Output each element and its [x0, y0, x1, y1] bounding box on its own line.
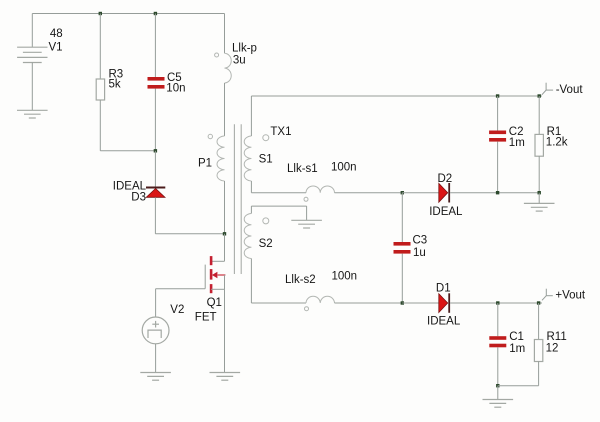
node junction D1 anode	[401, 301, 404, 304]
inductor Llk-s1	[306, 186, 335, 193]
wire V2 bottom lead	[155, 344, 157, 373]
wire D1 cathode to +Vout	[450, 302, 542, 304]
node junction C2 bottom	[496, 191, 499, 194]
svg-text:3u: 3u	[233, 54, 246, 66]
wire Llk-s2 to D1 node	[335, 302, 403, 304]
svg-text:48: 48	[50, 28, 63, 40]
wire D3 top lead	[154, 151, 156, 187]
wire D2 anode lead	[402, 192, 439, 194]
wire tap ground stem	[306, 206, 308, 220]
wire S1 to Llk-s1	[251, 192, 306, 194]
S2 dot	[263, 218, 269, 224]
wire R3 bottom lead	[99, 100, 101, 151]
node junction R11 top	[537, 301, 540, 304]
node junction at R3 top	[99, 12, 102, 15]
wire S2 bottom lead	[250, 259, 252, 304]
wire S1 bottom lead	[250, 181, 252, 193]
wire C3 bottom lead	[401, 254, 403, 303]
diode D2	[439, 183, 448, 202]
S1 dot	[263, 135, 269, 141]
wire V1 bottom lead	[31, 63, 33, 111]
node junction R1 top	[538, 94, 541, 97]
svg-text:12: 12	[546, 342, 559, 354]
svg-text:+Vout: +Vout	[555, 290, 586, 302]
svg-text:Q1: Q1	[207, 297, 222, 309]
wire C5 top lead	[154, 14, 156, 78]
svg-text:10n: 10n	[166, 82, 185, 94]
wire C5 bottom lead	[154, 89, 156, 151]
wire top rail	[32, 13, 224, 15]
node junction at C5 top	[154, 12, 157, 15]
svg-text:IDEAL: IDEAL	[427, 316, 461, 328]
node junction C3 top	[401, 191, 404, 194]
wire gate wire	[156, 288, 206, 290]
node junction C2 top	[496, 94, 499, 97]
Q1 drain stub	[211, 260, 224, 262]
wire S2 to Llk-s2	[251, 302, 306, 304]
svg-text:D2: D2	[438, 173, 453, 185]
svg-text:V2: V2	[170, 304, 184, 316]
svg-text:FET: FET	[195, 312, 217, 324]
capacitor C3	[401, 193, 403, 242]
Q1 channel dashes	[210, 256, 213, 293]
inductor Llk-p	[225, 53, 232, 83]
Q1 substrate arrow	[212, 272, 218, 279]
battery V1	[17, 47, 47, 62]
resistor R1	[538, 96, 540, 134]
svg-text:R11: R11	[547, 331, 567, 343]
node junction R1 bottom	[538, 191, 541, 194]
wire center tap	[251, 205, 306, 207]
svg-text:C3: C3	[413, 235, 428, 247]
svg-text:100n: 100n	[332, 271, 358, 283]
wire D2 cathode to R1 bottom	[450, 192, 539, 194]
transistor Q1 drain lead	[224, 234, 226, 261]
source V2	[142, 317, 169, 344]
svg-text:5k: 5k	[109, 79, 121, 91]
node junction C1 top	[496, 301, 499, 304]
node junction C1 bottom	[496, 384, 499, 387]
wire R3 to C5 bottom	[100, 150, 155, 152]
wire Llk-s1 to D2 node	[335, 192, 403, 194]
wire C1 bottom lead	[497, 347, 499, 385]
svg-text:Llk-s1: Llk-s1	[287, 163, 318, 175]
capacitor C2	[497, 96, 499, 131]
svg-text:-Vout: -Vout	[556, 84, 584, 96]
winding P1	[217, 136, 224, 181]
wire Llk-p top lead	[224, 14, 226, 54]
wire S1 top lead	[250, 96, 252, 136]
transformer TX1 core	[233, 124, 235, 274]
svg-text:Llk-p: Llk-p	[232, 42, 257, 54]
wire D3 to drain node	[155, 233, 224, 235]
svg-text:D1: D1	[436, 282, 451, 294]
terminal +Vout	[542, 289, 553, 301]
wire D3 bottom lead	[154, 197, 156, 234]
ground under R1	[524, 203, 555, 211]
P1 dot	[208, 134, 212, 138]
node junction C5 bottom / D3 top	[154, 149, 157, 152]
Q1 substrate to source	[224, 275, 226, 289]
winding S2	[244, 214, 251, 259]
Llk-s1 dot	[304, 197, 308, 201]
resistor R11	[538, 303, 540, 340]
ground under C1	[483, 400, 514, 408]
wire V1 top lead	[31, 14, 33, 48]
capacitor C1	[497, 303, 499, 336]
ground at center tap	[291, 220, 322, 228]
svg-text:P1: P1	[198, 158, 212, 170]
wire Llk-p to P1	[224, 83, 226, 136]
wire R1 ground stem	[538, 193, 540, 204]
wire -Vout rail	[251, 95, 542, 97]
terminal -Vout	[542, 83, 553, 95]
svg-text:C1: C1	[509, 331, 524, 343]
svg-text:S2: S2	[259, 238, 273, 250]
wire Q1 source down	[224, 289, 226, 372]
svg-text:TX1: TX1	[270, 126, 291, 138]
svg-text:IDEAL: IDEAL	[429, 206, 463, 218]
Llk-s2 dot	[305, 307, 309, 311]
wire tap to S2	[250, 206, 252, 213]
ground under V1	[17, 110, 48, 118]
capacitor C5	[148, 77, 165, 81]
svg-text:D3: D3	[131, 192, 146, 204]
wire R3 top lead	[99, 14, 101, 80]
svg-text:100n: 100n	[331, 161, 357, 173]
svg-text:Llk-s2: Llk-s2	[285, 274, 316, 286]
Q1 gate plate	[204, 265, 206, 289]
wire C1 ground stem	[497, 386, 499, 400]
inductor Llk-s2	[306, 296, 335, 303]
svg-text:1u: 1u	[413, 247, 426, 259]
svg-text:1m: 1m	[509, 137, 525, 149]
ground under V2	[140, 373, 171, 381]
svg-text:S1: S1	[259, 153, 273, 165]
Q1 source stub	[211, 288, 224, 290]
svg-text:1m: 1m	[509, 343, 525, 355]
winding S1	[244, 136, 251, 181]
ground under Q1	[210, 373, 241, 381]
wire C1 to R11 bottom rail	[498, 385, 539, 387]
wire P1 bottom lead	[224, 181, 226, 234]
wire V2 top lead	[155, 289, 157, 317]
node junction drain node	[223, 232, 226, 235]
wire C2 bottom lead	[497, 142, 499, 193]
wire D1 anode lead	[402, 302, 439, 304]
diode D3	[146, 187, 165, 189]
diode D1	[439, 294, 448, 313]
resistor R3	[96, 79, 104, 100]
svg-text:1.2k: 1.2k	[546, 137, 568, 149]
Llk-p dot	[215, 53, 219, 57]
svg-text:V1: V1	[49, 42, 63, 54]
